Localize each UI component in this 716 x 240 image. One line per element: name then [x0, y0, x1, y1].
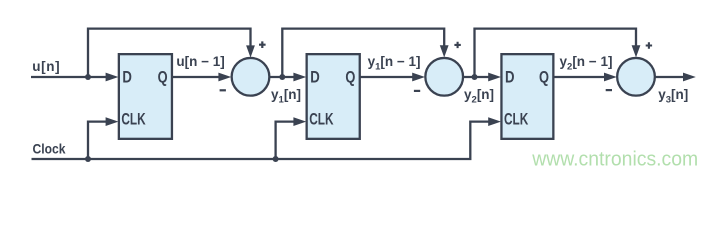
arrowhead into sum2 left [412, 73, 425, 82]
arrowhead y3 output [683, 73, 696, 82]
arrowhead into CLK3 [488, 117, 501, 126]
wire Q2 to sum2 [360, 76, 414, 78]
svg-text:u[n]: u[n] [32, 59, 60, 74]
wire clk2 branch [276, 122, 295, 159]
arrowhead into sum3 left [604, 73, 617, 82]
sign minus S1 [220, 89, 226, 91]
wire clock line [32, 122, 491, 159]
wire Q3 to sum3 [553, 76, 606, 78]
svg-text:Clock: Clock [33, 142, 66, 157]
arrowhead into CLK1 [106, 117, 119, 126]
svg-text:www.cntronics.com: www.cntronics.com [531, 149, 698, 171]
svg-text:Q: Q [539, 67, 549, 86]
wire sum1 out to FF2 [270, 76, 296, 78]
junction u[n] node [85, 74, 91, 80]
wire stage3 feedback riser and top [475, 29, 637, 77]
junction y2 node [472, 74, 478, 80]
svg-text:Q: Q [158, 67, 168, 86]
wire clk1 branch [88, 122, 107, 159]
flip-flop U2 box [307, 54, 360, 139]
summing junction S2 [425, 58, 463, 96]
svg-text:CLK: CLK [504, 110, 529, 129]
sign minus S2 [414, 90, 420, 92]
arrowhead into D3 [488, 73, 501, 82]
sign minus S3 [606, 89, 612, 91]
wire stage2 feedback riser and top [282, 29, 444, 77]
svg-text:D: D [310, 67, 320, 86]
sign plus S3 [646, 42, 652, 48]
svg-text:u[n − 1]: u[n − 1] [176, 54, 224, 69]
arrowhead into sum1 left [218, 73, 231, 82]
svg-text:CLK: CLK [309, 110, 334, 129]
svg-text:D: D [505, 67, 515, 86]
arrowhead into CLK2 [293, 117, 306, 126]
svg-text:CLK: CLK [121, 110, 146, 129]
summing junction S1 [232, 58, 270, 96]
junction y1 node [279, 74, 285, 80]
svg-text:Q: Q [345, 67, 355, 86]
arrowhead into sum1 top [246, 45, 255, 57]
arrowhead into D2 [293, 73, 306, 82]
arrowhead into sum3 top [632, 45, 641, 57]
summing junction S3 [617, 58, 655, 96]
wire sum2 out to FF3 [464, 76, 490, 78]
arrowhead into D1 [106, 73, 119, 82]
arrowhead into sum2 top [440, 45, 449, 57]
wire stage1 feedback riser and top [88, 29, 251, 77]
wire y3 output [655, 76, 685, 78]
junction clock node 2 [273, 156, 279, 162]
flip-flop U3 box [501, 54, 553, 139]
wire u[n] input [31, 76, 107, 78]
junction clock node 1 [85, 156, 91, 162]
wire Q1 to sum1 [172, 76, 220, 78]
sign plus S1 [259, 41, 266, 48]
svg-text:D: D [122, 67, 131, 86]
sign plus S2 [454, 42, 460, 48]
flip-flop U1 box [119, 54, 172, 139]
